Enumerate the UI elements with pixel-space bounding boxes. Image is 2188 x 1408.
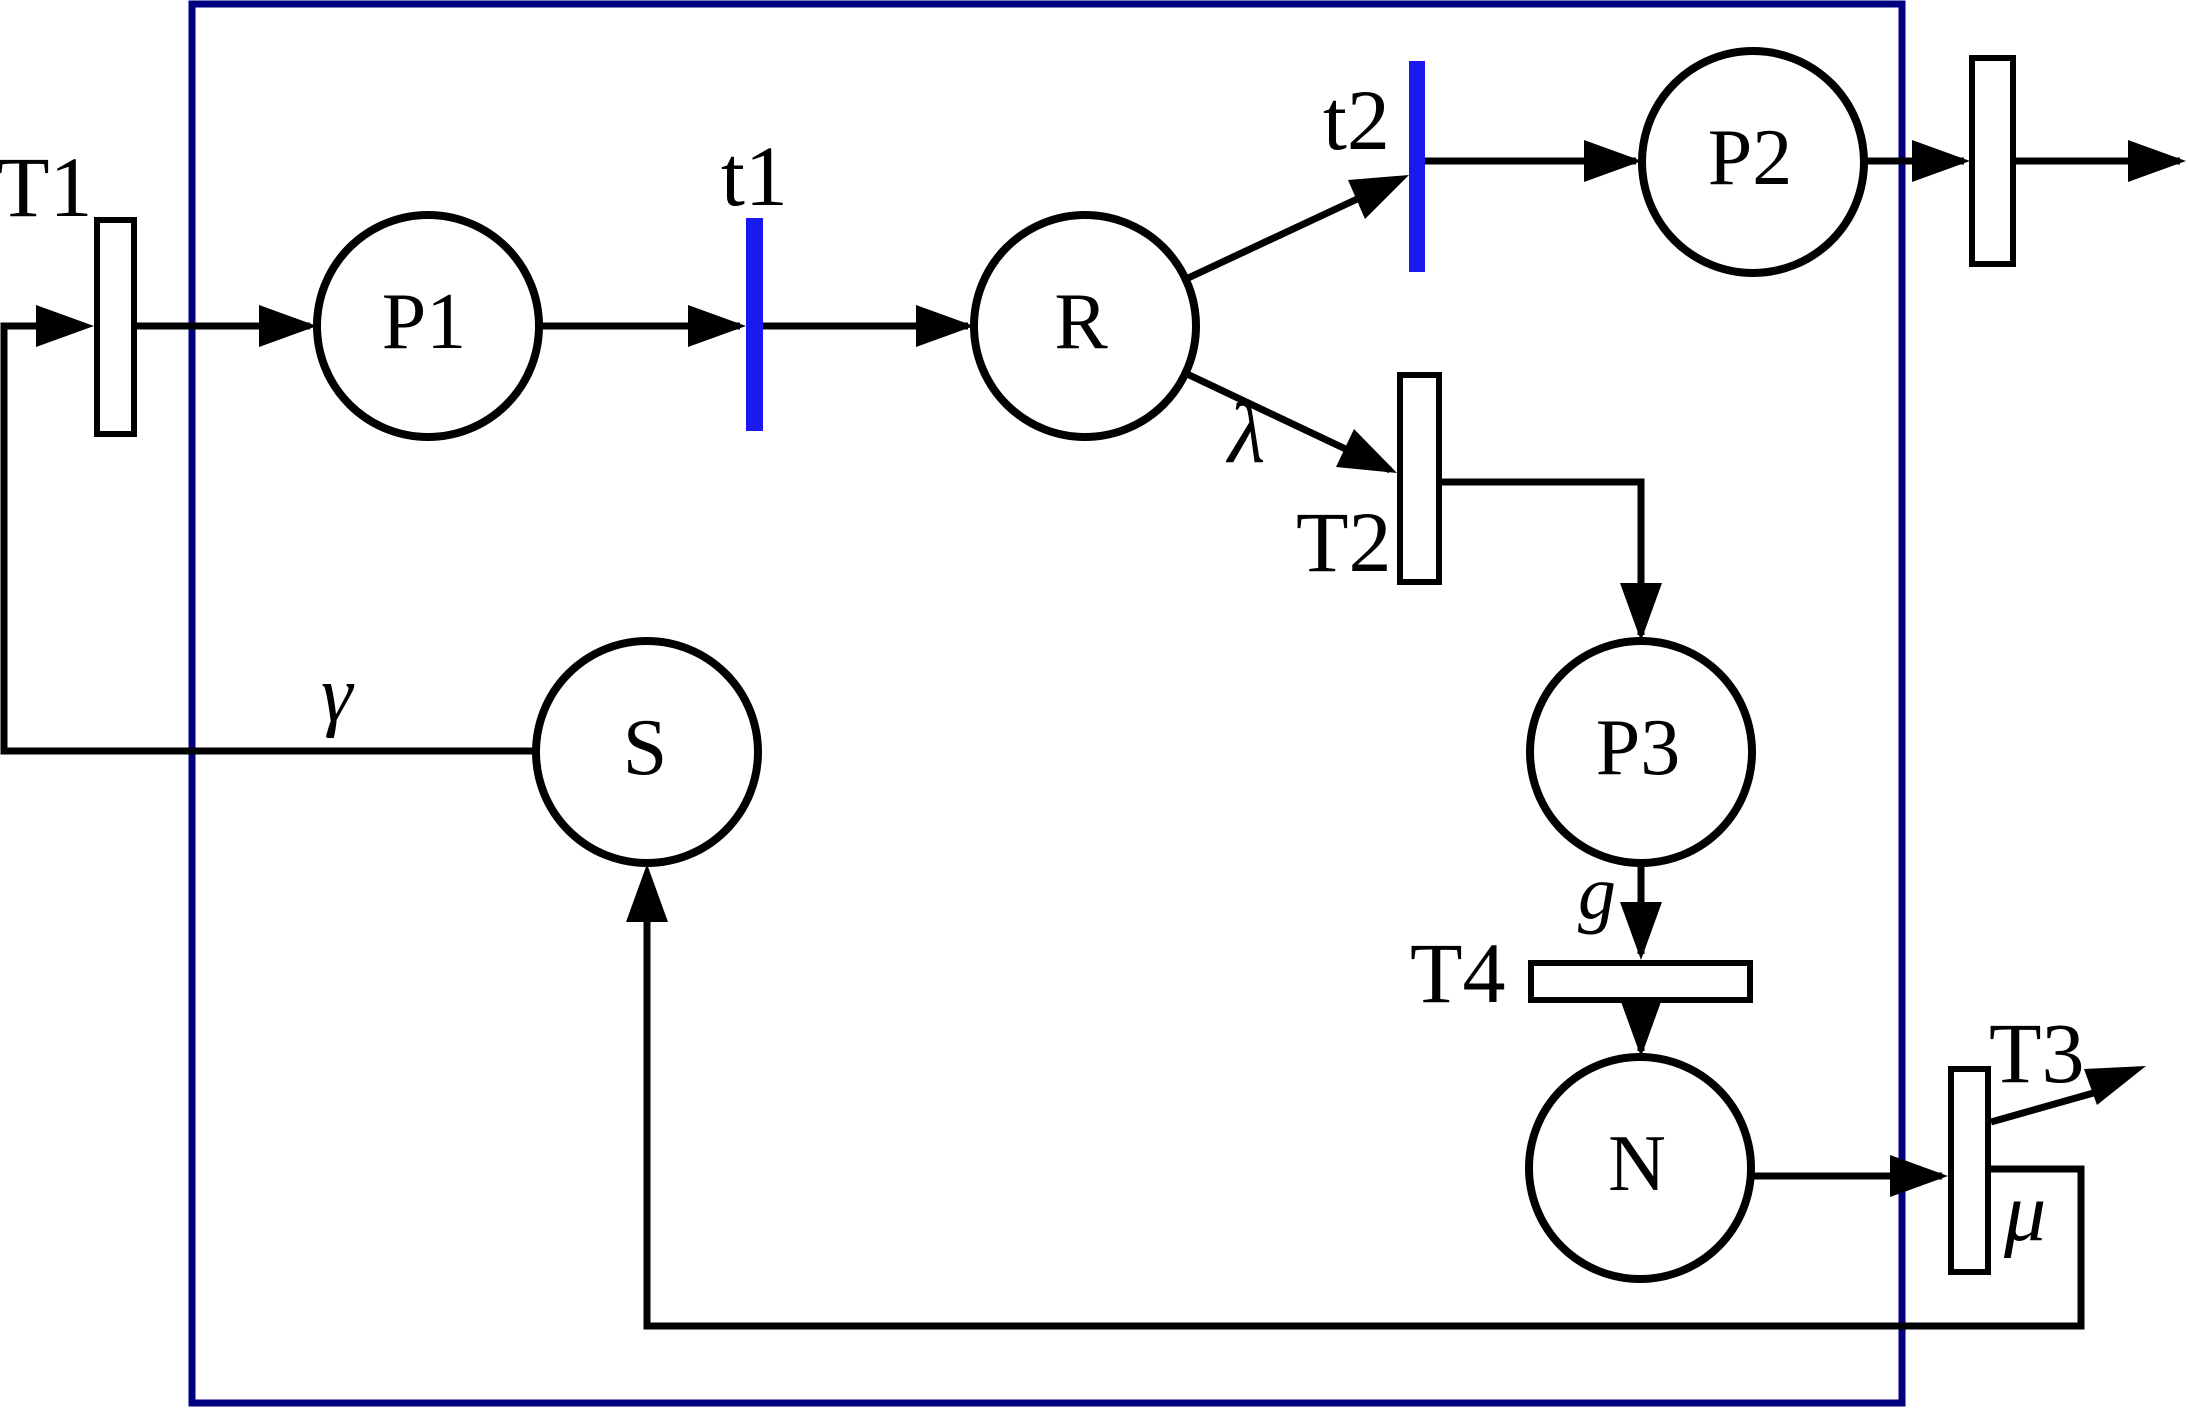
transition T4 (horizontal bar): [1531, 963, 1750, 1000]
place R: [974, 215, 1196, 437]
wire: feedback loop from place S up and into transition T1 (gamma arc): [4, 326, 536, 751]
arrowhead into T4: [1620, 902, 1662, 960]
arrowhead exit right: [2128, 140, 2186, 182]
arrowhead into T3: [1890, 1155, 1948, 1197]
arrowhead T3 exit: [2084, 1066, 2146, 1105]
arrowhead into t2: [1348, 175, 1409, 219]
immediate transition t2 (blue bar): [1409, 61, 1425, 272]
wire: T1 to P1: [137, 323, 310, 330]
wire: output transition to exit arrow: [2016, 158, 2180, 165]
arrowhead into S: [626, 864, 668, 922]
wire: R to T2 (diagonal down-right, lambda arc): [1185, 373, 1390, 470]
arrowhead into P1: [259, 305, 317, 347]
svg-text:T1: T1: [0, 139, 93, 235]
wire: t1 to R: [763, 323, 968, 330]
arrowhead into R: [916, 305, 974, 347]
svg-text:g: g: [1578, 851, 1616, 935]
svg-text:μ: μ: [2003, 1166, 2046, 1259]
svg-text:P1: P1: [382, 278, 467, 366]
wire: T3 output diagonal up-right: [1991, 1092, 2097, 1122]
transition T1: [97, 220, 134, 434]
svg-text:R: R: [1054, 278, 1108, 366]
place P1: [317, 215, 539, 437]
svg-text:T3: T3: [1989, 1005, 2085, 1101]
arrowhead into T2: [1336, 429, 1397, 473]
svg-text:t2: t2: [1323, 72, 1390, 168]
wire: P1 to t1: [539, 323, 740, 330]
transition T3: [1951, 1069, 1988, 1272]
svg-text:P2: P2: [1708, 114, 1793, 202]
arrowhead into P2: [1584, 140, 1642, 182]
wire: T3 to S feedback (mu arc): right, down, long left, up into S: [647, 922, 2081, 1326]
arrowhead into N: [1620, 999, 1662, 1057]
wire: P3 down to T4 (g arc): [1638, 863, 1645, 954]
svg-text:γ: γ: [321, 651, 355, 739]
arrowhead into t1: [688, 305, 746, 347]
place P3: [1530, 641, 1752, 863]
transition T2: [1400, 375, 1439, 582]
svg-text:λ: λ: [1225, 385, 1265, 481]
place S: [536, 641, 758, 863]
svg-text:S: S: [623, 704, 668, 792]
svg-text:t1: t1: [721, 128, 788, 224]
arrowhead into P3: [1620, 583, 1662, 641]
wire: N to T3: [1751, 1173, 1942, 1180]
place P2: [1642, 51, 1864, 273]
arrowhead into T1: [36, 305, 94, 347]
wire: R to t2 (diagonal up-right): [1186, 179, 1400, 279]
svg-text:T4: T4: [1410, 925, 1506, 1021]
svg-text:P3: P3: [1596, 704, 1681, 792]
output transition (unnamed, right of P2): [1972, 58, 2013, 264]
wire: t2 to P2: [1425, 158, 1636, 165]
svg-text:N: N: [1608, 1120, 1666, 1208]
svg-text:T2: T2: [1296, 494, 1392, 590]
arrowhead into output transition: [1912, 140, 1970, 182]
immediate transition t1 (blue bar): [746, 218, 763, 431]
frame: system boundary box: [192, 4, 1902, 1403]
place N: [1529, 1057, 1751, 1279]
wire: P2 to output transition: [1864, 158, 1964, 165]
wire: T4 down to N: [1638, 1003, 1645, 1051]
wire: T2 right, then down into P3: [1442, 482, 1641, 635]
